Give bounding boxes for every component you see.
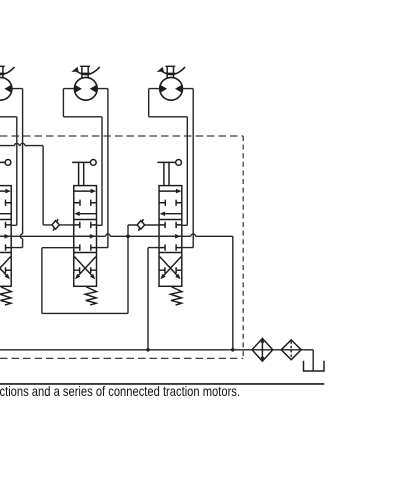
wire: motor 2 right port pipe — [96, 89, 108, 248]
junction: valve 3 drain to tank line — [146, 348, 150, 352]
wire: valve 2 return loop — [42, 236, 128, 313]
enclosure dashed boundary bottom — [0, 357, 243, 359]
wire: motor 3 right port pipe — [182, 89, 194, 248]
svg-text:ctions and a series of connect: ctions and a series of connected tractio… — [0, 384, 240, 399]
wire: motor 2 left port pipe — [63, 89, 102, 226]
wire: pilot line to valve 2 with two crossover hops — [0, 143, 74, 225]
junction: main return to tank line — [231, 348, 235, 352]
directional control valve 3 (right) — [157, 160, 182, 306]
directional control valve 2 (middle) — [72, 160, 97, 306]
hydraulic motor 1 (left, partially cropped) — [0, 66, 15, 101]
check valve symbol on pilot line to valve 2 — [52, 219, 59, 231]
junction: loop to main line — [126, 235, 130, 239]
cooler (diamond with through arrow) — [252, 338, 273, 361]
caption rule — [0, 383, 324, 385]
directional control valve 1 (left, partially cropped) — [0, 160, 11, 306]
wire: bottom return line to tank — [0, 350, 313, 371]
wire: pilot line to valve 3 — [128, 225, 159, 236]
wire: series main line through valves with crossover hops — [0, 234, 233, 350]
hydraulic motor 3 (right) — [157, 66, 186, 101]
check valve symbol on pilot line to valve 3 — [137, 219, 144, 231]
filter (diamond with dashed element) — [281, 340, 301, 360]
wire: motor 1 right port pipe with crossover hop — [11, 89, 22, 248]
enclosure dashed boundary top — [0, 135, 243, 137]
cooler heat-flow arrow — [261, 341, 263, 359]
enclosure dashed boundary right — [242, 136, 244, 358]
wire: valve 3 left port to tank line — [148, 248, 159, 350]
hydraulic motor 2 (middle) — [71, 66, 100, 101]
wire: motor 1 left port pipe — [0, 117, 17, 226]
tank symbol — [304, 361, 325, 371]
wire: motor 3 left port pipe — [149, 89, 188, 226]
